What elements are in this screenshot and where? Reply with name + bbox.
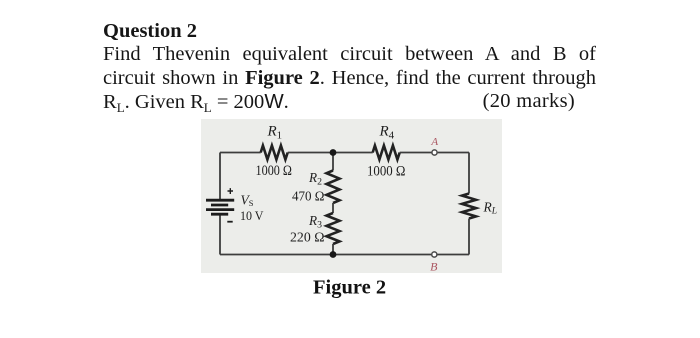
wire: top rail to node A [400,152,432,154]
wire: left rail upper (top rail to battery plus) [219,153,221,201]
resistor R1 [261,146,288,160]
wire: middle branch top (junction to R2) [332,153,334,171]
svg-text:1000 Ω: 1000 Ω [367,163,406,179]
resistor R3 [327,213,340,244]
resistor RL [462,194,476,219]
wire: bottom rail left of node B [220,254,431,256]
svg-text:10 V: 10 V [240,209,264,223]
svg-text:220 Ω: 220 Ω [290,230,325,245]
node B (open terminal) [432,252,437,257]
wire: right rail upper [468,153,470,194]
wire: right rail lower [468,219,470,255]
battery minus sign [227,221,232,223]
svg-text:470 Ω: 470 Ω [292,189,325,204]
resistor R2 [327,171,340,204]
junction top (node dot) [330,149,337,156]
junction bottom (node dot) [330,251,337,258]
svg-text:B: B [430,259,438,273]
wire: middle branch bottom (R3 to junction) [332,244,334,255]
gray figure panel [201,119,502,273]
svg-text:1000 Ω: 1000 Ω [256,163,293,179]
resistor R4 [373,146,400,160]
wire: bottom rail right of node B [437,254,469,256]
wire: middle branch between R2 and R3 [332,203,334,213]
svg-text:Figure 2: Figure 2 [313,277,386,299]
node A (open terminal) [432,150,437,155]
wire: top rail left segment [220,152,261,154]
battery plus sign [228,188,234,194]
battery Vs plates [206,199,234,202]
wire: top rail middle segment [288,152,373,154]
svg-text:A: A [430,136,438,148]
wire: node A to right corner [438,152,469,154]
wire: left rail lower (battery minus to bottom rail) [219,214,221,254]
question text block [103,20,596,115]
